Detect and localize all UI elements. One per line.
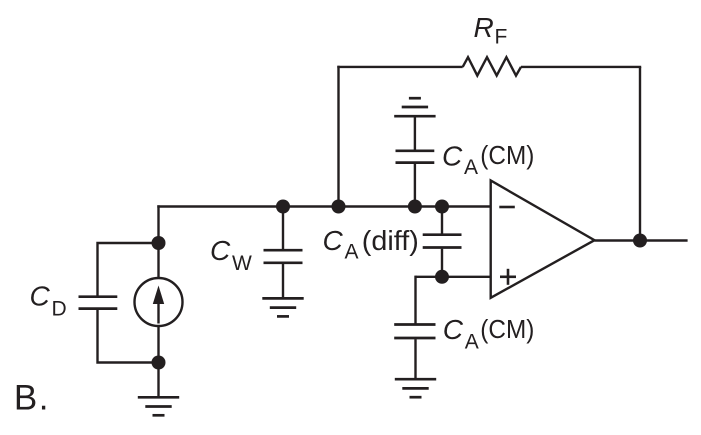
svg-text:C: C — [210, 235, 231, 266]
capacitor CA(CM) bottom — [394, 325, 435, 339]
wire drop to bottom CA(CM) — [414, 276, 416, 325]
capacitor CW — [264, 250, 303, 263]
wire feedback top-right segment — [521, 66, 641, 68]
resistor RF — [463, 57, 521, 75]
node CA(CM) top junction — [408, 200, 422, 214]
svg-text:C: C — [443, 314, 464, 345]
svg-text:(CM): (CM) — [480, 316, 534, 344]
wire feedback riser from inverting node — [337, 66, 339, 207]
svg-text:(diff): (diff) — [362, 225, 419, 256]
node feedback junction — [332, 200, 346, 214]
svg-text:A: A — [345, 241, 359, 264]
node photodiode bottom junction — [152, 356, 166, 370]
svg-text:C: C — [30, 281, 51, 312]
wire feedback top-left segment — [337, 66, 462, 68]
svg-text:C: C — [323, 225, 344, 256]
ground (photodiode bottom) — [138, 397, 179, 415]
svg-text:C: C — [442, 141, 463, 172]
svg-text:F: F — [495, 26, 508, 49]
ground (bottom CA(CM)) — [395, 379, 436, 397]
capacitor CA(diff) top lead wire — [441, 207, 443, 235]
svg-text:(CM): (CM) — [480, 142, 534, 170]
node CA(diff) bottom junction — [435, 270, 449, 284]
wire inverting-net vertical from top corner to photodiode node — [157, 205, 159, 243]
svg-text:A: A — [465, 331, 479, 354]
current source I bottom lead wire — [157, 326, 159, 363]
wire non-inverting input horizontal — [416, 276, 492, 278]
ground (top CA(CM), inverted) — [394, 98, 435, 116]
ground (CW) — [262, 298, 303, 316]
capacitor CW top lead wire — [282, 207, 284, 251]
svg-text:R: R — [474, 12, 494, 43]
capacitor CW bottom lead wire — [282, 264, 284, 298]
label RF — [474, 12, 508, 49]
current source I — [135, 278, 183, 326]
capacitor CD left lead wire — [98, 243, 159, 296]
capacitor CD — [79, 297, 118, 309]
node CW junction — [276, 200, 290, 214]
svg-text:A: A — [464, 156, 478, 179]
label CA(CM) bottom — [443, 314, 535, 354]
wire bottom CA(CM) capacitor to ground — [414, 339, 416, 379]
node photodiode top junction — [152, 236, 166, 250]
wire op-amp output — [595, 239, 688, 241]
label CA(diff) — [323, 225, 419, 264]
capacitor CD bottom lead wire — [98, 310, 159, 363]
node CA(diff) top junction — [435, 200, 449, 214]
svg-text:W: W — [232, 252, 252, 275]
op-amp U1 — [491, 181, 595, 298]
label CW — [210, 235, 252, 275]
wire CA(CM) top capacitor to inverting node — [414, 164, 416, 207]
label CD — [30, 281, 67, 321]
svg-text:B.: B. — [14, 379, 50, 418]
current source I top lead wire — [157, 243, 159, 278]
capacitor CA(diff) — [423, 235, 462, 248]
capacitor CA(diff) bottom lead wire — [441, 249, 443, 277]
wire from bottom node to ground — [157, 363, 159, 398]
svg-text:D: D — [52, 298, 67, 321]
wire top ground to CA(CM) capacitor — [414, 116, 416, 150]
wire feedback drop to output node — [639, 67, 641, 241]
node output junction — [633, 234, 647, 248]
wire inverting-net main horizontal to op-amp inverting input — [157, 205, 491, 207]
label CA(CM) top — [442, 141, 534, 180]
capacitor CA(CM) top — [396, 151, 435, 163]
